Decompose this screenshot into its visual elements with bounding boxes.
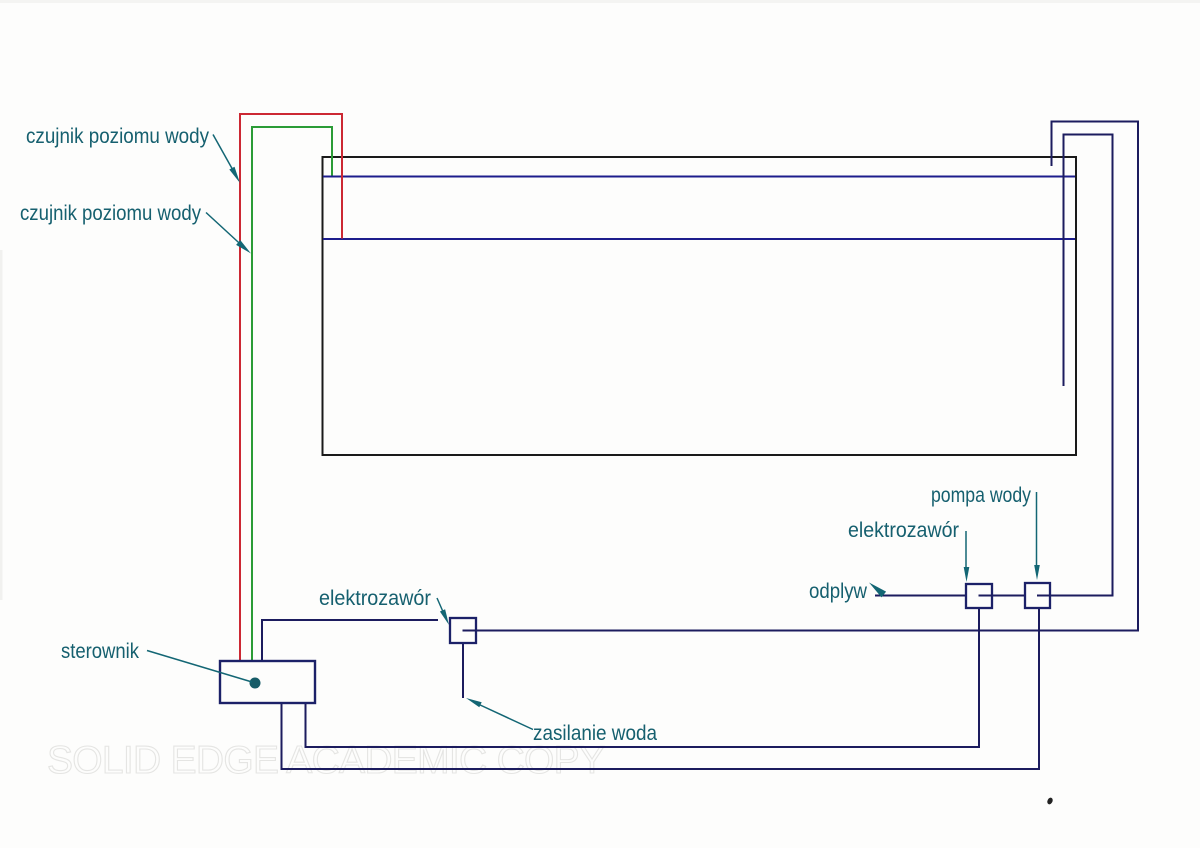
svg-text:elektrozawór: elektrozawór	[848, 519, 959, 542]
tank	[323, 157, 1077, 455]
svg-text:czujnik poziomu wody: czujnik poziomu wody	[20, 202, 201, 225]
pipe stub inside pump P1	[1037, 595, 1050, 597]
water level line upper	[323, 176, 1075, 178]
svg-text:czujnik poziomu wody: czujnik poziomu wody	[26, 125, 209, 148]
leader arrow to red sensor	[213, 135, 240, 184]
leader arrow to valve V2	[964, 531, 970, 582]
speck	[1046, 797, 1053, 805]
svg-text:odplyw: odplyw	[809, 580, 868, 603]
water level line lower	[323, 238, 1075, 240]
controller box (sterownik)	[220, 661, 315, 703]
control wire A (sterownik to valve V1)	[262, 620, 438, 661]
leader arrow to green sensor	[206, 213, 251, 254]
outflow line (odplyw)	[875, 595, 966, 597]
controller connection dot	[250, 678, 261, 689]
pipe stub inside valve V1	[463, 630, 477, 632]
svg-text:zasilanie woda: zasilanie woda	[533, 722, 657, 745]
svg-text:SOLID EDGE ACADEMIC COPY: SOLID EDGE ACADEMIC COPY	[47, 739, 605, 782]
supply pipe from valve V1 to tank top	[476, 122, 1138, 631]
scan edge tint top	[0, 0, 1200, 3]
outflow direction arrow	[869, 583, 886, 598]
valve V1 box (elektrozawor zasilanie)	[450, 618, 476, 643]
sensor wire green (czujnik poziomu wody 2)	[252, 127, 332, 661]
suction pipe from tank to pump P1	[1050, 135, 1113, 596]
pipe between valve V2 and pump P1	[992, 595, 1025, 597]
svg-text:pompa wody: pompa wody	[931, 484, 1031, 507]
scan edge tint left	[0, 250, 3, 600]
pump P1 box (pompa wody)	[1025, 583, 1050, 608]
sensor wire red (czujnik poziomu wody 1)	[240, 114, 342, 661]
pipe stub inside valve V2	[979, 595, 993, 597]
inflow stub (zasilanie woda)	[462, 643, 464, 698]
leader arrow to valve V1	[437, 598, 449, 625]
control wire B (sterownik to valve V2)	[306, 608, 980, 747]
svg-text:sterownik: sterownik	[61, 640, 139, 663]
leader arrow to inflow stub	[466, 698, 533, 730]
control wire C (sterownik to pump P1)	[282, 608, 1040, 769]
leader arrow to pump P1	[1034, 492, 1040, 580]
leader line to controller dot	[147, 651, 252, 683]
svg-text:elektrozawór: elektrozawór	[319, 587, 431, 610]
valve V2 box (elektrozawor odplyw)	[966, 584, 992, 608]
